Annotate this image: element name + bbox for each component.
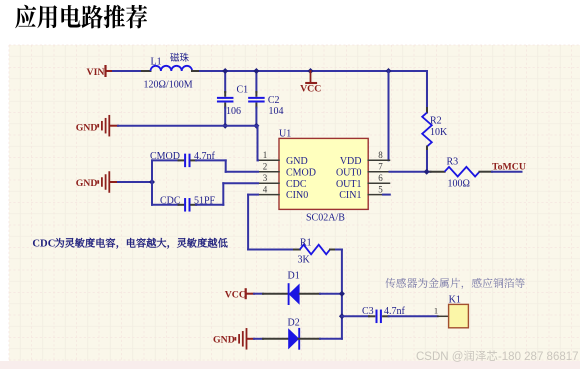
svg-text:3K: 3K [298, 254, 311, 265]
svg-text:GND: GND [213, 335, 235, 346]
svg-text:D1: D1 [288, 271, 300, 282]
svg-text:CDC: CDC [286, 179, 307, 190]
svg-text:2: 2 [263, 162, 268, 172]
svg-text:1: 1 [263, 150, 268, 160]
svg-text:5: 5 [378, 184, 383, 194]
svg-text:VIN: VIN [87, 67, 105, 78]
svg-text:VCC: VCC [225, 289, 246, 300]
svg-text:8: 8 [378, 150, 383, 160]
svg-text:120Ω/100M: 120Ω/100M [144, 80, 193, 91]
svg-text:VDD: VDD [340, 156, 362, 167]
svg-text:D2: D2 [288, 318, 300, 329]
svg-text:7: 7 [378, 162, 383, 172]
svg-text:6: 6 [378, 173, 383, 183]
svg-text:磁珠: 磁珠 [170, 52, 190, 64]
svg-text:C1: C1 [237, 85, 249, 96]
svg-text:1: 1 [434, 305, 438, 315]
svg-text:CDC: CDC [160, 195, 181, 206]
svg-text:L1: L1 [151, 57, 162, 68]
svg-text:U1: U1 [279, 129, 291, 140]
svg-text:104: 104 [269, 106, 284, 117]
svg-text:R1: R1 [300, 238, 312, 249]
svg-text:10K: 10K [430, 127, 448, 138]
svg-text:R3: R3 [447, 156, 459, 167]
svg-text:CMOD: CMOD [286, 167, 316, 178]
svg-text:4.7nf: 4.7nf [384, 306, 406, 317]
svg-text:OUT0: OUT0 [336, 167, 362, 178]
svg-text:4.7nf: 4.7nf [194, 151, 216, 162]
svg-text:GND: GND [76, 178, 98, 189]
svg-text:C2: C2 [268, 95, 280, 106]
svg-text:106: 106 [226, 106, 241, 117]
svg-text:R2: R2 [430, 116, 442, 127]
svg-text:ToMCU: ToMCU [492, 161, 526, 172]
svg-text:CIN1: CIN1 [339, 190, 361, 201]
svg-text:CIN0: CIN0 [286, 190, 308, 201]
svg-text:51PF: 51PF [194, 195, 216, 206]
svg-text:C3: C3 [362, 306, 374, 317]
svg-text:SC02A/B: SC02A/B [306, 213, 345, 224]
svg-text:CMOD: CMOD [150, 151, 180, 162]
svg-text:GND: GND [76, 123, 98, 134]
svg-text:VCC: VCC [300, 83, 321, 94]
svg-text:K1: K1 [449, 295, 461, 306]
svg-text:4: 4 [263, 184, 268, 194]
svg-text:GND: GND [286, 156, 308, 167]
svg-text:CDC: CDC [32, 238, 55, 249]
svg-text:为灵敏度电容，电容越大，灵敏度越低: 为灵敏度电容，电容越大，灵敏度越低 [55, 234, 229, 249]
svg-text:传感器为金属片，感应铜箔等: 传感器为金属片，感应铜箔等 [385, 276, 526, 291]
svg-text:OUT1: OUT1 [336, 179, 362, 190]
svg-text:3: 3 [263, 173, 268, 183]
svg-text:100Ω: 100Ω [448, 179, 470, 190]
